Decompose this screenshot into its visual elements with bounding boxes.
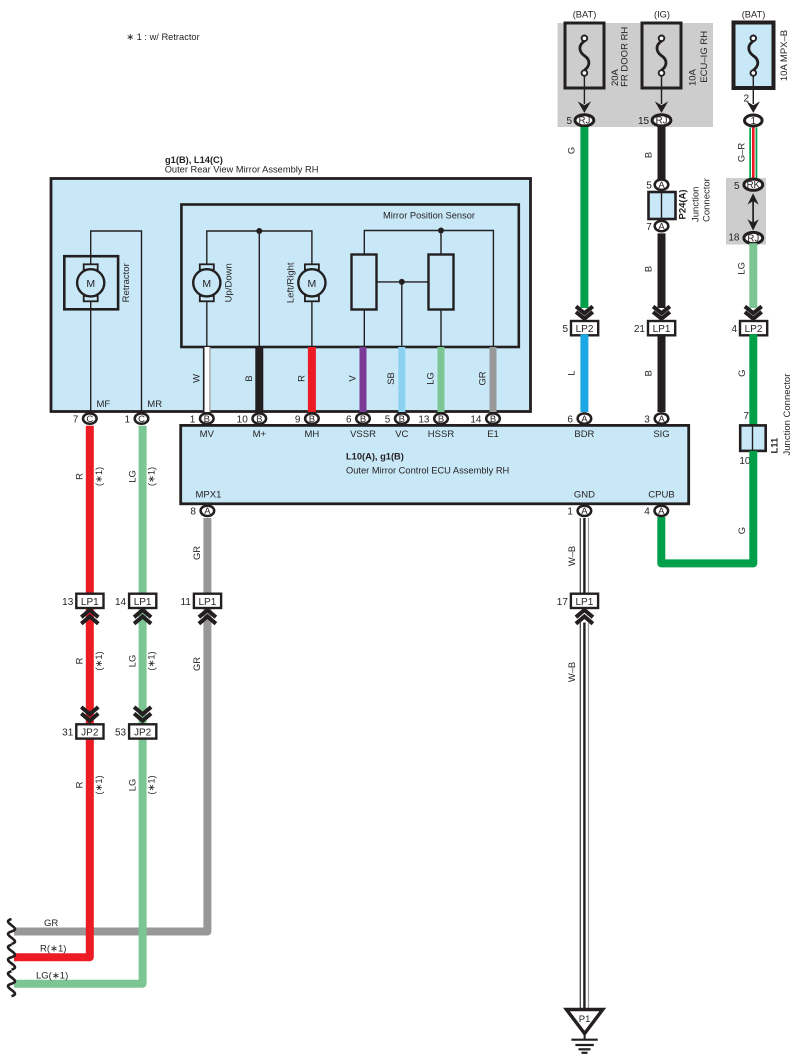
svg-text:B: B [643, 266, 654, 272]
break squiggle GR [8, 919, 15, 944]
svg-text:LG: LG [424, 372, 435, 385]
svg-text:A: A [658, 222, 665, 233]
svg-text:P1: P1 [579, 1014, 591, 1025]
svg-text:(∗1): (∗1) [93, 775, 104, 794]
motor rail wire [207, 231, 312, 266]
connector 18 RJ [728, 232, 762, 244]
connector 21 LP1 [634, 321, 675, 335]
pin 5 B VC [385, 413, 409, 425]
connector 53 JP2 [115, 724, 156, 738]
svg-text:E1: E1 [487, 429, 499, 440]
svg-text:21: 21 [634, 324, 646, 335]
connector 17 LP1 [557, 594, 598, 624]
svg-text:JP2: JP2 [134, 728, 152, 739]
wire fuse3 pin 2 to connector 1 [752, 76, 754, 104]
svg-text:Retractor: Retractor [121, 263, 132, 302]
pin 1 A GND [567, 506, 591, 518]
pin 1 B MV [190, 413, 214, 425]
svg-text:4: 4 [644, 507, 650, 518]
svg-text:5: 5 [566, 116, 572, 127]
svg-text:MPX1: MPX1 [196, 490, 222, 501]
svg-text:31: 31 [62, 728, 74, 739]
retractor circuit wire [91, 231, 142, 412]
connector 5 RJ [566, 115, 593, 127]
svg-text:11: 11 [181, 597, 192, 608]
node M+ junction [256, 228, 262, 234]
svg-text:B: B [309, 414, 315, 425]
svg-text:9: 9 [295, 414, 301, 425]
chevrons down [745, 306, 762, 318]
ground P1 [566, 1010, 602, 1053]
svg-text:L: L [565, 371, 576, 376]
svg-text:8: 8 [190, 507, 196, 518]
svg-text:1: 1 [190, 414, 196, 425]
svg-text:Outer Mirror Control ECU Assem: Outer Mirror Control ECU Assembly RH [346, 466, 509, 476]
wire HSSR down [440, 310, 442, 348]
connector 5 RK [734, 179, 763, 192]
pin 10 B M+ [237, 413, 266, 425]
wire LG [424, 347, 441, 412]
break squiggle LG [8, 971, 15, 996]
svg-text:RK: RK [747, 180, 761, 191]
wire VC down [401, 282, 403, 347]
svg-text:VC: VC [395, 429, 408, 440]
wire G-R [736, 128, 754, 180]
wire B A to LP1 [643, 233, 662, 308]
pin 9 B MH [295, 413, 319, 425]
svg-text:3: 3 [644, 414, 650, 425]
left/right motor M [286, 262, 326, 303]
connector 4 LP2 [731, 321, 767, 335]
svg-text:B: B [490, 414, 496, 425]
svg-text:R(∗1): R(∗1) [40, 944, 66, 955]
svg-text:LG: LG [736, 262, 747, 275]
svg-text:10A MPX–B: 10A MPX–B [779, 30, 790, 81]
chevrons down [576, 306, 593, 318]
svg-text:Left/Right: Left/Right [286, 262, 297, 303]
wire W-B LP1 to ground [566, 623, 589, 1010]
svg-text:Junction: Junction [691, 187, 702, 222]
svg-text:GR: GR [476, 371, 487, 385]
svg-text:B: B [243, 375, 254, 381]
connector 7 A [646, 221, 668, 233]
up/down motor M [193, 263, 234, 302]
gray box RK/RJ right [726, 178, 766, 245]
wire GR MPX1 to bottom left [14, 518, 207, 932]
svg-text:R: R [74, 473, 85, 480]
svg-text:RJ: RJ [747, 234, 759, 245]
svg-text:MF: MF [97, 399, 111, 410]
svg-text:P24(A): P24(A) [678, 189, 689, 219]
svg-text:M: M [86, 278, 95, 290]
svg-text:∗ 1 : w/ Retractor: ∗ 1 : w/ Retractor [126, 32, 199, 42]
svg-text:(BAT): (BAT) [742, 10, 766, 20]
junction block J/B gray background [558, 23, 714, 127]
wire G LP2 to L11 [736, 334, 753, 426]
svg-text:M: M [308, 278, 317, 290]
svg-text:R: R [296, 375, 307, 382]
svg-text:RJ: RJ [656, 116, 668, 127]
svg-text:LG: LG [126, 655, 137, 668]
svg-text:V: V [346, 375, 357, 382]
svg-text:(∗1): (∗1) [93, 651, 104, 670]
node VC junction [399, 279, 405, 285]
svg-text:5: 5 [385, 414, 391, 425]
svg-text:(IG): (IG) [654, 10, 670, 20]
svg-text:GR: GR [44, 918, 58, 929]
svg-text:JP2: JP2 [81, 728, 99, 739]
svg-text:B: B [360, 414, 366, 425]
svg-text:10A: 10A [688, 68, 699, 86]
svg-text:VSSR: VSSR [350, 429, 376, 440]
svg-text:6: 6 [346, 414, 352, 425]
svg-text:G–R: G–R [736, 143, 747, 163]
svg-text:LP1: LP1 [576, 597, 594, 608]
svg-text:Up/Down: Up/Down [224, 263, 235, 302]
wire B fuse2 to A [643, 127, 662, 179]
double arrow RK to RJ [748, 193, 759, 230]
svg-text:GR: GR [191, 546, 202, 560]
wire G fuse1 to LP2 [565, 127, 584, 308]
pin 3 A SIG [644, 413, 668, 425]
svg-text:GR: GR [191, 657, 202, 671]
resistor left [352, 255, 377, 310]
wiper link wire [377, 281, 429, 283]
connector 14 LP1 [115, 594, 156, 624]
svg-text:18: 18 [728, 233, 740, 244]
svg-text:M+: M+ [253, 429, 267, 440]
wire G L11 to CPUB [661, 451, 753, 564]
resistor right [429, 255, 454, 310]
svg-text:G: G [565, 147, 576, 154]
svg-text:L10(A), g1(B): L10(A), g1(B) [346, 452, 404, 462]
pin 6 B VSSR [346, 413, 370, 425]
svg-text:(∗1): (∗1) [146, 467, 157, 486]
svg-text:R: R [74, 657, 85, 664]
connector 15 RJ [638, 115, 671, 127]
outer mirror control ECU assembly RH box [181, 425, 689, 503]
svg-text:G: G [736, 527, 747, 534]
wire R [296, 347, 312, 412]
svg-text:R: R [74, 781, 85, 788]
wire rail to right resistor [440, 231, 442, 255]
svg-text:C: C [86, 414, 93, 425]
svg-text:LP2: LP2 [745, 324, 763, 335]
svg-text:MR: MR [147, 399, 162, 410]
svg-text:A: A [581, 414, 588, 425]
break squiggle R [8, 945, 15, 970]
node HSSR junction [438, 228, 444, 234]
wire fuse1 to RJ [583, 76, 585, 104]
svg-text:14: 14 [470, 414, 482, 425]
wire W [191, 347, 210, 412]
svg-text:G: G [736, 370, 747, 377]
pin 6 A BDR [567, 413, 591, 425]
pin 13 B HSSR [418, 413, 447, 425]
chevrons down above JP2 [81, 707, 98, 721]
svg-text:A: A [204, 506, 211, 517]
connector 5 LP2 [562, 321, 598, 335]
svg-text:B: B [643, 370, 654, 376]
svg-text:SIG: SIG [653, 429, 669, 440]
wire GR [476, 347, 493, 412]
svg-text:LP1: LP1 [199, 597, 217, 608]
svg-text:7: 7 [646, 222, 652, 233]
svg-text:7: 7 [73, 414, 79, 425]
svg-text:(∗1): (∗1) [93, 467, 104, 486]
wire left/right motor to MH [311, 300, 313, 347]
svg-text:Connector: Connector [702, 178, 713, 222]
wire B LP1 to SIG [643, 334, 662, 412]
fuse 10A ECU-IG RH [642, 10, 710, 89]
svg-text:15: 15 [638, 116, 650, 127]
svg-text:A: A [658, 180, 665, 191]
svg-text:W–B: W–B [566, 662, 577, 682]
fuse 10A MPX-B [734, 10, 791, 89]
wire LG MR to bottom left [14, 426, 157, 984]
svg-text:(BAT): (BAT) [573, 10, 597, 20]
svg-text:6: 6 [567, 414, 573, 425]
mirror position sensor box [181, 205, 518, 348]
wire fuse2 to RJ [661, 76, 663, 104]
wire B [243, 347, 259, 412]
svg-text:ECU–IG RH: ECU–IG RH [699, 31, 710, 83]
svg-text:B: B [399, 414, 405, 425]
svg-text:13: 13 [62, 597, 74, 608]
chevrons down above JP2 [134, 707, 151, 721]
svg-text:M: M [202, 278, 211, 290]
svg-text:LP1: LP1 [81, 597, 99, 608]
svg-text:FR DOOR RH: FR DOOR RH [619, 27, 630, 87]
pin 4 A CPUB [644, 506, 668, 518]
svg-text:SB: SB [385, 372, 396, 385]
svg-text:Junction Connector: Junction Connector [782, 374, 793, 456]
pin 14 B E1 [470, 413, 499, 425]
svg-text:LG: LG [126, 470, 137, 483]
svg-text:HSSR: HSSR [428, 429, 455, 440]
svg-text:B: B [204, 414, 210, 425]
svg-text:MV: MV [200, 429, 215, 440]
svg-text:14: 14 [115, 597, 127, 608]
svg-text:17: 17 [557, 597, 569, 608]
svg-text:B: B [438, 414, 444, 425]
svg-text:LG(∗1): LG(∗1) [36, 970, 68, 981]
chevrons down [653, 306, 670, 318]
retractor motor M [64, 256, 132, 309]
wire L LP2 to BDR [565, 334, 584, 412]
svg-text:1: 1 [124, 414, 130, 425]
svg-text:CPUB: CPUB [648, 490, 674, 501]
svg-text:W: W [191, 374, 202, 383]
outer rear view mirror assembly RH box [51, 155, 531, 412]
svg-text:53: 53 [115, 728, 127, 739]
svg-text:MH: MH [305, 429, 320, 440]
sensor rail wire [364, 231, 493, 348]
svg-text:(∗1): (∗1) [146, 651, 157, 670]
svg-text:A: A [658, 414, 665, 425]
svg-text:GND: GND [574, 490, 595, 501]
svg-text:A: A [581, 506, 588, 517]
connector 31 JP2 [62, 724, 103, 738]
connector 1 [745, 115, 763, 126]
junction connector L11 [739, 374, 793, 467]
svg-text:13: 13 [418, 414, 430, 425]
svg-text:LP2: LP2 [576, 324, 594, 335]
svg-text:L11: L11 [770, 437, 781, 454]
wire motor to MF [90, 300, 92, 412]
svg-text:W–B: W–B [566, 546, 577, 566]
svg-text:BDR: BDR [574, 429, 594, 440]
svg-text:10: 10 [237, 414, 249, 425]
svg-text:LP1: LP1 [653, 324, 671, 335]
connector 13 LP1 [62, 594, 103, 624]
wire up/down motor to MV [206, 300, 208, 347]
wire LG down to LP2 [736, 243, 754, 308]
svg-text:(∗1): (∗1) [146, 775, 157, 794]
svg-text:5: 5 [646, 180, 652, 191]
svg-text:5: 5 [734, 181, 740, 192]
svg-text:RJ: RJ [578, 116, 590, 127]
svg-text:C: C [138, 414, 145, 425]
svg-text:5: 5 [562, 324, 568, 335]
wire W-B GND to ground [566, 518, 589, 594]
connector 11 LP1 [181, 594, 222, 624]
svg-text:1: 1 [567, 507, 573, 518]
svg-text:10: 10 [739, 456, 751, 467]
svg-text:Mirror Position Sensor: Mirror Position Sensor [383, 211, 475, 221]
fuse 20A FR DOOR RH [565, 10, 630, 89]
svg-text:7: 7 [743, 411, 749, 422]
svg-text:A: A [658, 506, 665, 517]
svg-text:B: B [256, 414, 262, 425]
svg-text:1: 1 [751, 116, 756, 127]
svg-text:Outer Rear View Mirror Assembl: Outer Rear View Mirror Assembly RH [165, 164, 319, 174]
svg-text:4: 4 [731, 324, 737, 335]
wire VSSR down [363, 310, 365, 348]
pin 7 C [73, 413, 97, 425]
wire SB [385, 347, 402, 412]
pin 1 C [124, 413, 148, 425]
svg-text:B: B [643, 152, 654, 158]
pin 8 A MPX1 [190, 506, 214, 518]
wire R MF to bottom left [14, 426, 104, 958]
junction connector P24(A) [649, 178, 713, 222]
svg-text:LG: LG [126, 779, 137, 792]
svg-text:LP1: LP1 [134, 597, 152, 608]
wire V [346, 347, 363, 412]
wire M+ down [258, 231, 260, 347]
connector 5 A [646, 180, 668, 192]
